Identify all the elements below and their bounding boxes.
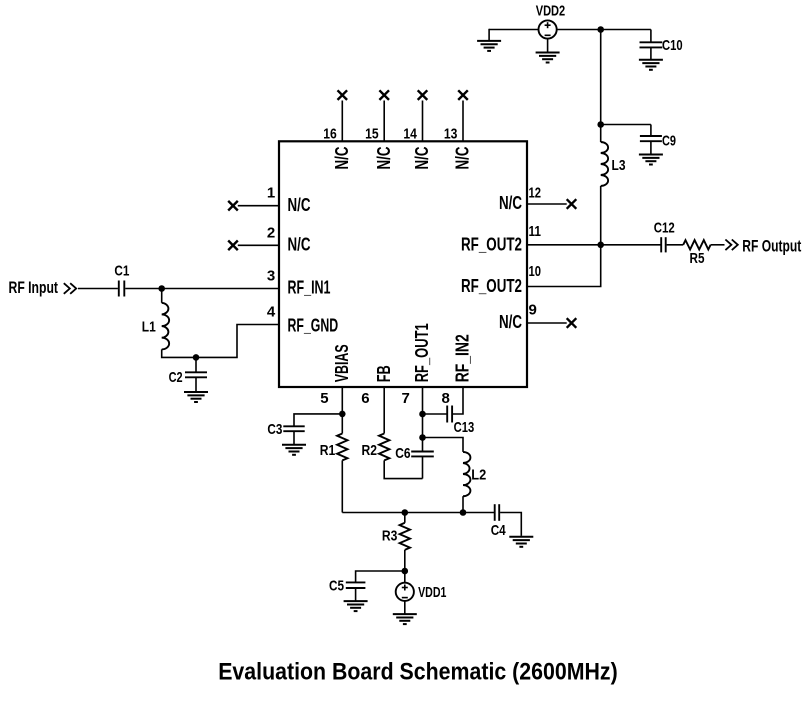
pin number 10 — [529, 263, 542, 280]
wire pin 14 — [422, 101, 424, 142]
capacitor C10 — [640, 42, 663, 47]
wire L1 bottom to C2 junction — [162, 325, 279, 358]
pin label VBIAS (pin 5) — [331, 344, 352, 382]
svg-text:C2: C2 — [169, 369, 183, 386]
label R3 — [382, 528, 398, 545]
node junction C1/L1 — [158, 285, 165, 292]
wire C1 to pin 3 — [125, 288, 279, 290]
pin label RF_OUT2 (pin 10) — [461, 275, 522, 296]
no-connect X pin 14 — [418, 90, 428, 100]
ground under C3 — [282, 445, 306, 455]
inductor L3 — [601, 142, 608, 186]
svg-text:FB: FB — [373, 365, 394, 382]
pin label RF_IN1 (pin 3) — [288, 277, 331, 298]
wire VDD2 to C10 — [557, 29, 651, 31]
voltage source VDD1 — [396, 583, 414, 601]
pin number 11 — [529, 223, 542, 240]
no-connect X pin 16 — [338, 90, 348, 100]
pin number 7 — [401, 390, 409, 407]
svg-text:N/C: N/C — [499, 311, 522, 332]
svg-text:Evaluation Board Schematic (26: Evaluation Board Schematic (2600MHz) — [218, 659, 618, 686]
svg-text:1: 1 — [267, 185, 275, 202]
wire R1 bottom to bus — [341, 460, 343, 512]
label R2 — [362, 442, 378, 459]
svg-text:5: 5 — [320, 390, 328, 407]
no-connect X pin 13 — [458, 90, 468, 100]
resistor R3 — [400, 523, 410, 550]
wire C13 to pin 8 — [453, 387, 463, 414]
label C4 — [491, 522, 507, 539]
svg-text:C1: C1 — [114, 262, 129, 279]
svg-text:N/C: N/C — [288, 234, 311, 255]
wire C6 bottom — [422, 456, 424, 478]
wire C9 bottom — [650, 141, 652, 154]
wire R1 top — [341, 414, 343, 434]
wire pin 5 VBIAS down — [341, 387, 343, 414]
label C3 — [267, 421, 282, 438]
svg-text:C5: C5 — [329, 577, 344, 594]
svg-text:R2: R2 — [362, 442, 378, 459]
wire L3 bottom to output junction — [600, 186, 602, 245]
label C9 — [662, 133, 676, 150]
pin label N/C (pin 14) — [411, 147, 432, 170]
wire bias bus — [342, 512, 494, 514]
capacitor C4 — [495, 504, 500, 521]
wire pin 12 — [527, 203, 567, 205]
pin label N/C (pin 16) — [331, 147, 352, 170]
svg-text:7: 7 — [401, 390, 409, 407]
svg-text:C3: C3 — [267, 421, 282, 438]
node junction L1/C2 — [193, 354, 200, 361]
wire C12 to R5 — [667, 244, 684, 246]
svg-text:C13: C13 — [454, 419, 475, 436]
wire junction to C9 — [601, 124, 651, 126]
label R1 — [320, 442, 336, 459]
label VDD1 — [418, 584, 446, 601]
wire C2 bottom — [195, 377, 197, 391]
pin label RF_OUT2 (pin 11) — [461, 233, 522, 254]
svg-text:RF Input: RF Input — [9, 279, 59, 297]
capacitor C13 — [447, 406, 452, 423]
label C13 — [454, 419, 475, 436]
pin label N/C (pin 12) — [499, 192, 522, 213]
wire pin 9 — [527, 322, 567, 324]
node RF Output label — [742, 237, 801, 255]
svg-text:RF_OUT1: RF_OUT1 — [411, 323, 432, 382]
capacitor C2 — [185, 372, 207, 377]
svg-text:4: 4 — [267, 304, 276, 321]
label C12 — [654, 220, 675, 237]
wire junction to C5 — [356, 571, 405, 582]
svg-text:RF_OUT2: RF_OUT2 — [461, 275, 522, 296]
node junction bus/R3 — [402, 509, 409, 516]
no-connect X pin 12 — [567, 199, 577, 209]
svg-text:16: 16 — [323, 125, 337, 142]
node junction C6/L2 — [419, 434, 426, 441]
wire pin 15 — [383, 101, 385, 142]
pin label N/C (pin 15) — [373, 147, 394, 170]
no-connect X pin 1 — [228, 201, 238, 211]
pin label N/C (pin 2) — [288, 234, 311, 255]
svg-text:14: 14 — [403, 125, 417, 142]
pin number 9 — [529, 301, 537, 318]
wire C6 top — [422, 438, 424, 452]
ground under C2 — [184, 392, 208, 402]
wire pin 1 — [238, 205, 279, 207]
pin label N/C (pin 1) — [288, 194, 311, 215]
wire pin 6 FB down — [383, 387, 385, 434]
wire VDD2 junction down to L3 junction — [600, 30, 602, 125]
wire C9 top — [650, 125, 652, 137]
wire junction to L2 top — [423, 438, 464, 452]
pin number 12 — [529, 184, 542, 201]
svg-text:R3: R3 — [382, 528, 398, 545]
svg-text:10: 10 — [529, 263, 542, 280]
ground under VDD1 — [393, 614, 417, 624]
svg-text:3: 3 — [267, 267, 275, 284]
capacitor C1 — [119, 281, 125, 297]
wire pin 7 RF_OUT1 down — [422, 387, 424, 414]
pin number 15 — [365, 125, 379, 142]
svg-text:N/C: N/C — [411, 147, 432, 170]
svg-text:VBIAS: VBIAS — [331, 344, 352, 382]
wire pin 11 RF_OUT2 to C12 — [527, 244, 661, 246]
wire pin 13 — [462, 101, 464, 142]
pin label N/C (pin 9) — [499, 311, 522, 332]
voltage source VDD2 — [539, 20, 557, 38]
label VDD2 — [536, 3, 566, 20]
RF output arrow — [725, 240, 737, 251]
node RF Input label — [9, 279, 59, 297]
svg-text:C9: C9 — [662, 133, 676, 150]
svg-text:N/C: N/C — [288, 194, 311, 215]
svg-text:N/C: N/C — [331, 147, 352, 170]
pin number 6 — [361, 390, 369, 407]
ground under C10 — [639, 60, 663, 70]
capacitor C3 — [283, 426, 304, 431]
pin number 4 — [267, 304, 276, 321]
op-amp U1 (16-pin IC body) — [279, 141, 527, 387]
wire junction to C13 — [423, 413, 448, 415]
pin number 13 — [444, 125, 458, 142]
svg-text:9: 9 — [529, 301, 537, 318]
ground under C5 — [344, 601, 368, 611]
wire pin 10 RF_OUT2 up to junction — [527, 245, 601, 287]
svg-text:VDD2: VDD2 — [536, 3, 566, 20]
label L2 — [471, 467, 486, 484]
capacitor C5 — [346, 582, 366, 588]
svg-text:15: 15 — [365, 125, 379, 142]
wire R3 bottom — [404, 550, 406, 571]
resistor R5 — [683, 240, 710, 249]
capacitor C6 — [411, 452, 434, 457]
wire R2 bottom to C6 bottom — [384, 460, 422, 478]
wire C3 bottom — [293, 431, 295, 444]
RF input arrow — [64, 283, 76, 294]
node junction pin7/C13 — [419, 411, 426, 418]
svg-text:C10: C10 — [662, 37, 683, 54]
pin number 1 — [267, 185, 275, 202]
wire VDD2 left ground stub — [488, 29, 490, 41]
wire L2 bottom to bus — [462, 496, 464, 512]
wire VDD1 bottom stub — [404, 601, 406, 614]
ground left of VDD2 — [477, 41, 501, 51]
svg-text:11: 11 — [529, 223, 542, 240]
ground under VDD2 — [536, 53, 560, 63]
svg-text:C12: C12 — [654, 220, 675, 237]
resistor R1 — [337, 434, 347, 461]
pin number 16 — [323, 125, 337, 142]
svg-text:8: 8 — [442, 390, 450, 407]
label C1 — [114, 262, 129, 279]
wire C10 bottom — [650, 47, 652, 59]
wire R5 to arrow — [711, 244, 725, 246]
inductor L1 — [162, 303, 169, 350]
title text — [218, 659, 618, 686]
no-connect X pin 2 — [228, 241, 238, 251]
svg-text:N/C: N/C — [373, 147, 394, 170]
svg-text:N/C: N/C — [499, 192, 522, 213]
pin label N/C (pin 13) — [452, 147, 473, 170]
svg-text:R1: R1 — [320, 442, 336, 459]
ground under C9 — [639, 155, 663, 165]
wire pin 16 — [341, 101, 343, 142]
svg-text:C6: C6 — [395, 445, 410, 462]
pin number 5 — [320, 390, 328, 407]
svg-text:2: 2 — [267, 224, 275, 241]
pin label RF_OUT1 (pin 7) — [411, 323, 432, 382]
pin number 3 — [267, 267, 275, 284]
label C10 — [662, 37, 683, 54]
wire pin 2 — [238, 244, 279, 246]
wire pin7 junction down — [422, 414, 424, 438]
wire RF input to C1 — [78, 288, 118, 290]
wire L1 top — [161, 289, 163, 303]
no-connect X pin 9 — [567, 318, 577, 328]
no-connect X pin 15 — [379, 90, 389, 100]
svg-text:N/C: N/C — [452, 147, 473, 170]
wire VDD2 left — [489, 29, 538, 31]
wire C2 top — [195, 357, 197, 372]
label L1 — [142, 319, 156, 336]
capacitor C12 — [661, 237, 666, 252]
pin number 2 — [267, 224, 275, 241]
svg-text:C4: C4 — [491, 522, 507, 539]
svg-text:VDD1: VDD1 — [418, 584, 446, 601]
pin label RF_GND (pin 4) — [288, 314, 339, 335]
capacitor C9 — [640, 136, 662, 141]
node junction R3/C5/VDD1 — [402, 568, 409, 575]
label C5 — [329, 577, 344, 594]
svg-text:L1: L1 — [142, 319, 156, 336]
svg-text:R5: R5 — [690, 250, 705, 267]
svg-text:RF_IN2: RF_IN2 — [452, 334, 473, 382]
svg-text:6: 6 — [361, 390, 369, 407]
label C6 — [395, 445, 410, 462]
node junction VDD2/C10 — [597, 26, 604, 33]
wire VDD2 bottom stub — [547, 39, 549, 53]
pin label RF_IN2 (pin 8) — [452, 334, 473, 382]
svg-text:13: 13 — [444, 125, 458, 142]
node junction L3/C9 — [597, 121, 604, 128]
pin label FB (pin 6) — [373, 365, 394, 382]
wire C10 top — [650, 30, 652, 43]
wire L3 top stub — [600, 125, 602, 143]
pin number 8 — [442, 390, 450, 407]
svg-text:L2: L2 — [471, 467, 486, 484]
wire C4 to ground — [500, 513, 521, 536]
svg-text:RF_OUT2: RF_OUT2 — [461, 233, 522, 254]
ground under C4 — [509, 537, 533, 547]
node junction L2/bus — [460, 509, 467, 516]
label C2 — [169, 369, 183, 386]
resistor R2 — [379, 434, 389, 461]
label R5 — [690, 250, 705, 267]
wire R3 top — [404, 513, 406, 523]
svg-text:12: 12 — [529, 184, 542, 201]
svg-text:RF_GND: RF_GND — [288, 314, 339, 335]
wire VDD1 top stub — [404, 571, 406, 583]
svg-text:L3: L3 — [612, 157, 626, 174]
node junction pin5/C3/R1 — [339, 411, 346, 418]
inductor L2 — [463, 452, 470, 496]
wire C5 bottom — [355, 588, 357, 601]
wire junction to C3 — [294, 414, 342, 426]
svg-text:RF_IN1: RF_IN1 — [288, 277, 331, 298]
pin number 14 — [403, 125, 417, 142]
svg-text:RF Output: RF Output — [742, 237, 801, 255]
label L3 — [612, 157, 626, 174]
node junction output — [597, 242, 604, 249]
